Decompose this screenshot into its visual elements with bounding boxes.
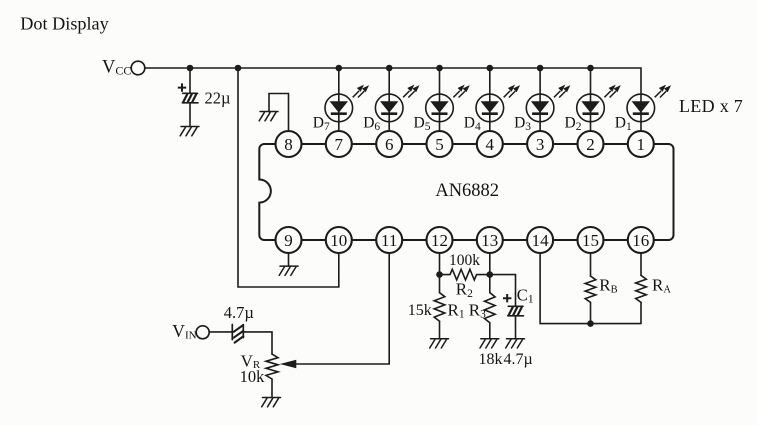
svg-text:3: 3	[536, 135, 545, 154]
svg-text:1: 1	[637, 135, 646, 154]
svg-text:4: 4	[486, 135, 495, 154]
svg-text:10k: 10k	[240, 367, 266, 386]
svg-text:4.7µ: 4.7µ	[224, 303, 254, 322]
svg-text:14: 14	[532, 231, 550, 250]
svg-text:15k: 15k	[408, 302, 432, 319]
svg-text:LED x 7: LED x 7	[679, 96, 743, 116]
svg-text:5: 5	[435, 135, 444, 154]
svg-text:AN6882: AN6882	[435, 181, 499, 201]
svg-text:11: 11	[381, 231, 397, 250]
svg-text:2: 2	[586, 135, 595, 154]
svg-text:18k: 18k	[479, 351, 503, 368]
svg-text:4.7µ: 4.7µ	[504, 351, 533, 368]
svg-text:13: 13	[481, 231, 498, 250]
svg-text:7: 7	[335, 135, 344, 154]
svg-text:15: 15	[582, 231, 599, 250]
svg-text:22µ: 22µ	[205, 88, 231, 107]
svg-text:6: 6	[385, 135, 394, 154]
svg-text:8: 8	[284, 135, 293, 154]
svg-text:9: 9	[284, 231, 293, 250]
svg-text:10: 10	[330, 231, 347, 250]
svg-text:Dot Display: Dot Display	[20, 13, 109, 33]
svg-text:100k: 100k	[449, 252, 480, 269]
svg-text:12: 12	[431, 231, 448, 250]
svg-text:16: 16	[632, 231, 649, 250]
